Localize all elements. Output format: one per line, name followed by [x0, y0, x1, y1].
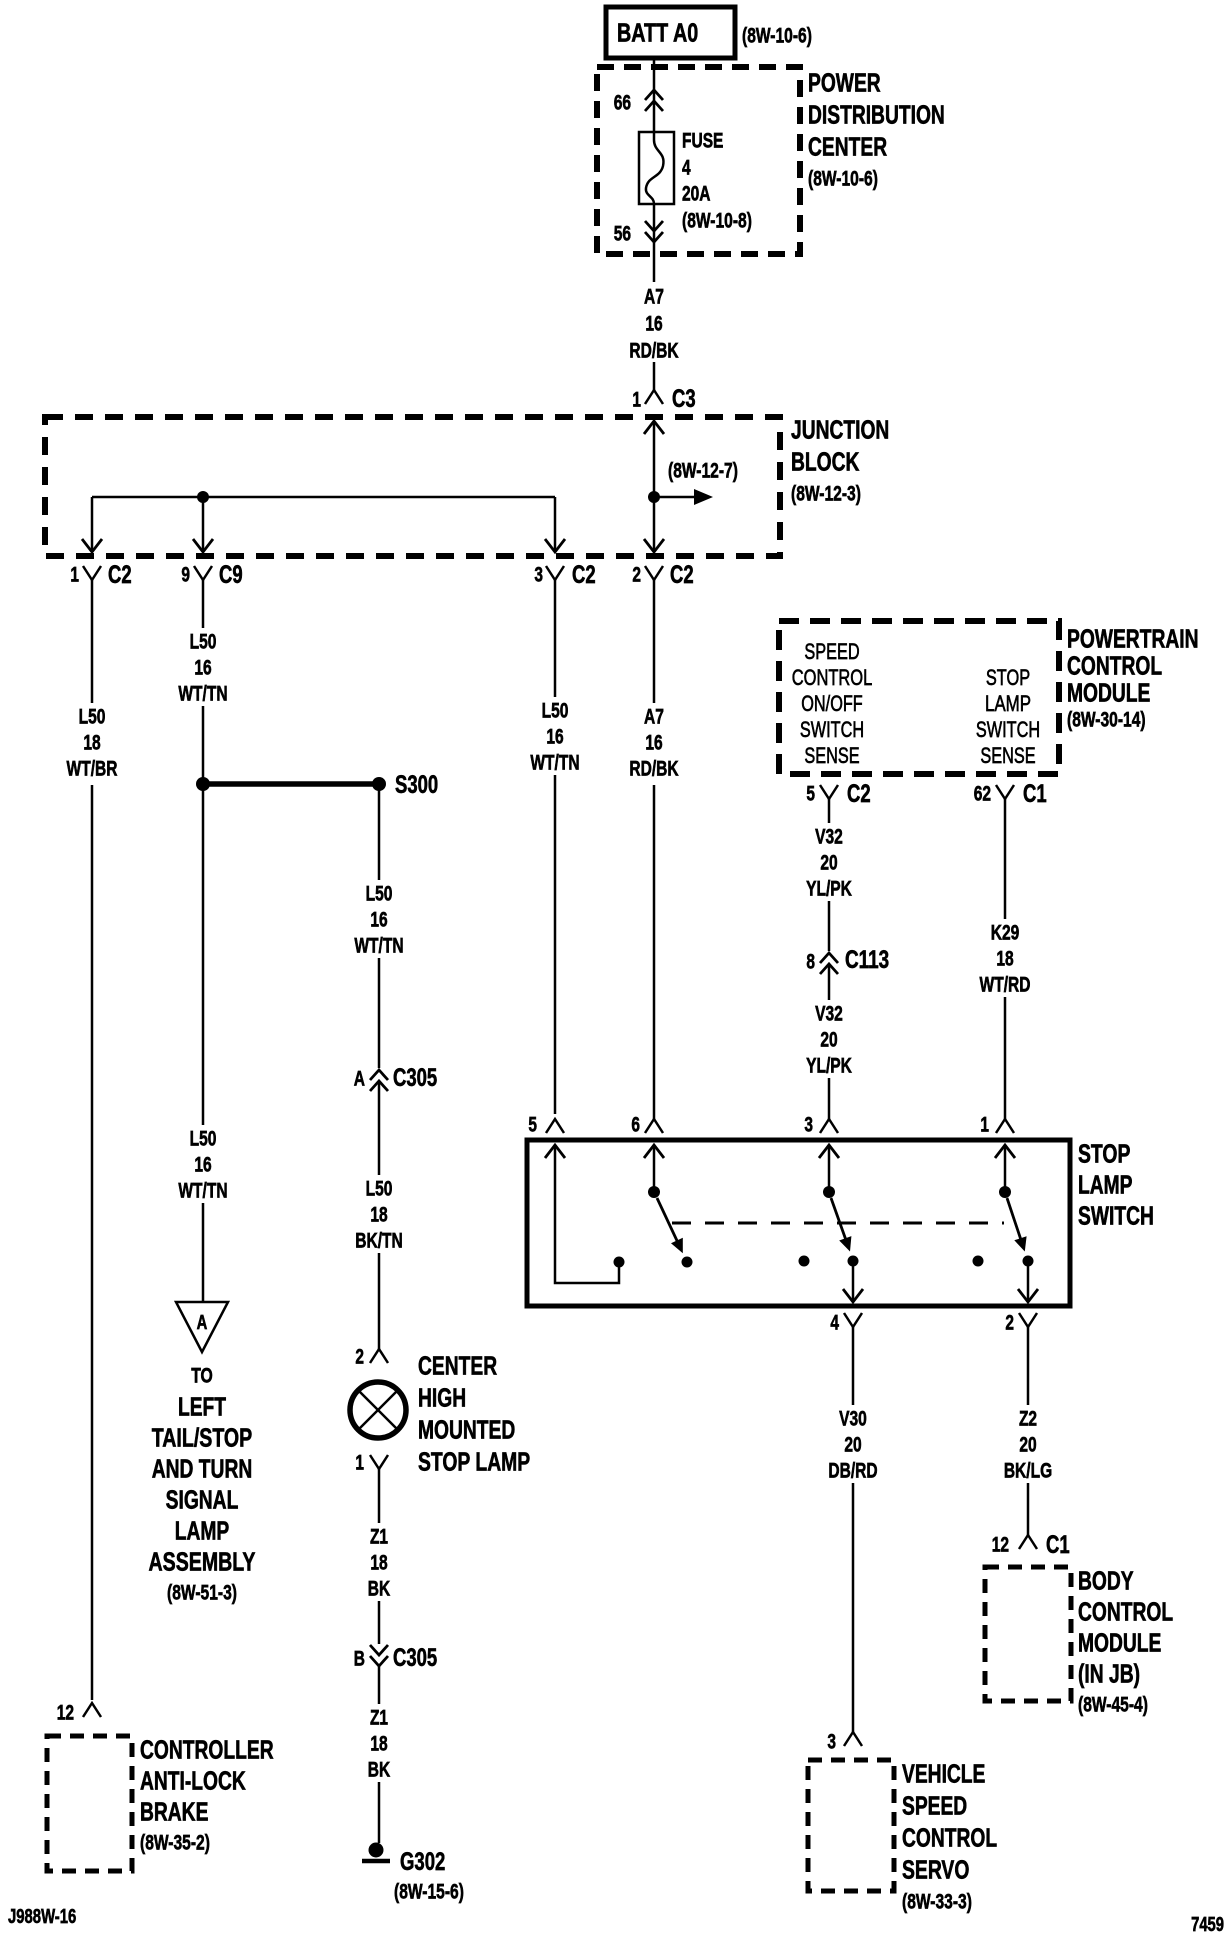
svg-text:(8W-35-2): (8W-35-2) [140, 1832, 210, 1855]
svg-text:7459: 7459 [1191, 1914, 1224, 1936]
junction block dashed box [45, 417, 780, 556]
wire segment below C305 [378, 1081, 381, 1175]
svg-text:POWER: POWER [808, 67, 881, 97]
switch connector pin 3 [820, 1119, 838, 1133]
switch pin 6 entry arrow [644, 1145, 664, 1158]
svg-text:A: A [354, 1068, 365, 1091]
svg-text:66: 66 [614, 92, 631, 115]
svg-text:C3: C3 [672, 385, 696, 413]
svg-text:S300: S300 [395, 771, 438, 799]
wire from BATT A0 into PDC [653, 58, 656, 140]
wire L50 upper segment left [91, 580, 94, 703]
wire Z2 segment to BCM [1027, 1483, 1030, 1535]
svg-text:C1: C1 [1046, 1531, 1070, 1559]
svg-text:16: 16 [645, 313, 662, 336]
wire L50 segment to stop lamp switch pin 5 [554, 775, 557, 1114]
svg-text:V32: V32 [815, 826, 843, 849]
connector C113 pin 8 [820, 953, 838, 963]
wire L50 from C9 to splice S300 and beyond [202, 706, 205, 1125]
svg-text:SERVO: SERVO [902, 1854, 969, 1884]
svg-text:18: 18 [996, 948, 1014, 971]
svg-text:3: 3 [534, 564, 543, 587]
PCM connector C1 pin 62 [996, 785, 1014, 799]
connector C9 pin 9 below junction block [194, 566, 212, 580]
wire segment to connector C305 B [378, 1601, 381, 1644]
A7 drop to connector C2 pin 2 with arrow [644, 539, 664, 552]
svg-text:(8W-10-8): (8W-10-8) [682, 210, 752, 233]
switch output wire to pin 4 with arrow [852, 1266, 855, 1300]
svg-text:C305: C305 [393, 1064, 437, 1092]
wire Z2 segment below switch [1027, 1327, 1030, 1405]
wire A7 upper segment below junction block [653, 580, 656, 703]
svg-text:LEFT: LEFT [178, 1391, 226, 1421]
svg-text:5: 5 [806, 783, 815, 806]
svg-text:(8W-33-3): (8W-33-3) [902, 1891, 972, 1914]
svg-text:L50: L50 [190, 1128, 217, 1151]
svg-text:20: 20 [820, 852, 837, 875]
svg-text:CONTROL: CONTROL [792, 665, 873, 690]
wire Z1 segment below lamp [378, 1469, 381, 1523]
switch blade pin 6 with arrow [657, 1198, 679, 1245]
svg-text:L50: L50 [542, 700, 569, 723]
wire segment to ground [378, 1782, 381, 1843]
controller anti-lock brake dashed box [47, 1736, 132, 1871]
switch contact node pin 6 throw [682, 1257, 693, 1268]
svg-text:CONTROL: CONTROL [902, 1822, 997, 1852]
switch output wire to pin 2 with arrow [1027, 1266, 1030, 1300]
svg-text:3: 3 [827, 1731, 836, 1754]
svg-text:12: 12 [57, 1702, 74, 1725]
svg-text:A7: A7 [644, 286, 664, 309]
svg-text:WT/BR: WT/BR [67, 758, 118, 781]
connector C2 pin 2 below junction block [645, 566, 663, 580]
svg-text:BK: BK [368, 1578, 390, 1601]
svg-text:20: 20 [820, 1029, 837, 1052]
svg-text:Z1: Z1 [370, 1526, 388, 1549]
switch gang dashed link [672, 1222, 1004, 1225]
svg-text:POWERTRAIN: POWERTRAIN [1067, 623, 1199, 653]
lamp connector pin 1 [370, 1455, 388, 1469]
svg-text:FUSE: FUSE [682, 130, 723, 153]
body control module dashed box [985, 1567, 1071, 1701]
powertrain control module dashed box [779, 621, 1059, 774]
svg-text:DISTRIBUTION: DISTRIBUTION [808, 99, 945, 129]
svg-text:56: 56 [614, 223, 631, 246]
servo connector pin 3 [844, 1732, 862, 1746]
svg-text:(8W-30-14): (8W-30-14) [1067, 709, 1146, 732]
svg-text:ANTI-LOCK: ANTI-LOCK [140, 1765, 246, 1795]
power source box BATT A0 [606, 7, 735, 58]
wire segment to connector C113 [828, 901, 831, 951]
svg-text:(8W-45-4): (8W-45-4) [1078, 1694, 1148, 1717]
svg-text:5: 5 [528, 1114, 537, 1137]
svg-text:(8W-12-7): (8W-12-7) [668, 460, 738, 483]
svg-text:Z1: Z1 [370, 1707, 388, 1730]
svg-text:C2: C2 [670, 561, 694, 589]
switch contact node pin 2 throw [1023, 1256, 1034, 1267]
svg-text:STOP: STOP [986, 665, 1030, 690]
svg-text:16: 16 [194, 1154, 211, 1177]
switch connector pin 1 [996, 1119, 1014, 1133]
svg-text:VEHICLE: VEHICLE [902, 1758, 985, 1788]
svg-text:16: 16 [194, 657, 211, 680]
svg-text:BRAKE: BRAKE [140, 1796, 208, 1826]
wire K29 segment from PCM [1004, 799, 1007, 919]
svg-text:SIGNAL: SIGNAL [166, 1484, 239, 1514]
svg-text:9: 9 [181, 564, 190, 587]
svg-text:B: B [354, 1648, 365, 1671]
svg-text:BLOCK: BLOCK [791, 446, 860, 476]
wire segment to connector C305 A [378, 958, 381, 1068]
switch contact node pin 4 throw [848, 1256, 859, 1267]
svg-text:(8W-10-6): (8W-10-6) [742, 25, 812, 48]
svg-text:AND TURN: AND TURN [152, 1453, 253, 1483]
fuse 4 20A [639, 132, 674, 204]
stop lamp switch box [527, 1140, 1070, 1306]
svg-text:16: 16 [546, 726, 563, 749]
svg-text:CENTER: CENTER [418, 1350, 497, 1380]
svg-text:(IN JB): (IN JB) [1078, 1658, 1140, 1688]
svg-text:18: 18 [83, 732, 101, 755]
svg-text:CONTROL: CONTROL [1078, 1596, 1173, 1626]
svg-text:ASSEMBLY: ASSEMBLY [149, 1546, 256, 1576]
ground G302 [369, 1843, 384, 1858]
switch pin 3 entry arrow [819, 1145, 839, 1158]
svg-text:SENSE: SENSE [980, 743, 1035, 768]
svg-text:WT/TN: WT/TN [530, 752, 579, 775]
svg-text:DB/RD: DB/RD [828, 1460, 877, 1483]
svg-text:2: 2 [1005, 1312, 1014, 1335]
svg-text:JUNCTION: JUNCTION [791, 414, 889, 444]
svg-text:4: 4 [830, 1312, 839, 1335]
connector C305 pin A [370, 1070, 388, 1080]
wire L50 18 WT/BR long segment to ABS controller [91, 785, 94, 1700]
svg-text:LAMP: LAMP [1078, 1169, 1133, 1199]
switch connector pin 2 [1019, 1313, 1037, 1327]
svg-text:SENSE: SENSE [804, 743, 859, 768]
svg-text:YL/PK: YL/PK [806, 878, 852, 901]
svg-text:BK: BK [368, 1759, 390, 1782]
svg-text:SPEED: SPEED [804, 639, 859, 664]
svg-text:BK/LG: BK/LG [1004, 1460, 1052, 1483]
lamp center high mounted stop lamp [350, 1382, 406, 1438]
svg-text:C305: C305 [393, 1644, 437, 1672]
junction node on A7 feed [648, 491, 660, 503]
svg-text:(8W-12-3): (8W-12-3) [791, 483, 861, 506]
svg-text:A7: A7 [644, 706, 664, 729]
connector C3 pin 1 [645, 390, 663, 404]
wire segment below C113 [828, 964, 831, 1000]
svg-text:C9: C9 [219, 561, 243, 589]
svg-text:LAMP: LAMP [985, 691, 1031, 716]
wire segment below C305 B [378, 1666, 381, 1704]
svg-text:L50: L50 [366, 883, 393, 906]
svg-text:L50: L50 [79, 706, 106, 729]
svg-text:WT/TN: WT/TN [178, 1180, 227, 1203]
bus drop to connector C9 pin 9 with arrow [202, 497, 205, 550]
junction node on bus at C9 drop [197, 491, 209, 503]
off-page reference triangle A [176, 1302, 228, 1352]
svg-text:STOP LAMP: STOP LAMP [418, 1446, 530, 1476]
svg-text:SWITCH: SWITCH [976, 717, 1040, 742]
svg-text:L50: L50 [190, 631, 217, 654]
svg-text:1: 1 [632, 389, 641, 412]
svg-text:Z2: Z2 [1019, 1408, 1037, 1431]
svg-text:3: 3 [804, 1114, 813, 1137]
svg-text:1: 1 [980, 1114, 989, 1137]
svg-text:20: 20 [1019, 1434, 1036, 1457]
bus drop to connector C2 pin 1 with arrow [91, 497, 94, 550]
switch pole node pin 6 [648, 1186, 660, 1198]
svg-text:LAMP: LAMP [175, 1515, 230, 1545]
svg-text:WT/TN: WT/TN [178, 683, 227, 706]
wire V30 segment below switch [852, 1327, 855, 1405]
switch pole node pin 1 [999, 1186, 1011, 1198]
switch blade pin 3 with arrow [831, 1198, 847, 1243]
PCM connector C2 pin 5 [820, 785, 838, 799]
svg-text:62: 62 [974, 783, 991, 806]
switch connector pin 4 [844, 1313, 862, 1327]
svg-text:K29: K29 [991, 922, 1020, 945]
wire segment to connector C3 [653, 362, 656, 390]
wire L50 upper segment from C2 pin 3 [554, 580, 557, 697]
svg-text:CONTROLLER: CONTROLLER [140, 1734, 274, 1764]
svg-text:WT/RD: WT/RD [980, 974, 1031, 997]
svg-text:C1: C1 [1023, 780, 1047, 808]
svg-text:BATT A0: BATT A0 [617, 17, 698, 47]
svg-text:RD/BK: RD/BK [629, 758, 678, 781]
BCM connector C1 pin 12 [1019, 1535, 1037, 1549]
svg-text:STOP: STOP [1078, 1138, 1130, 1168]
switch common contact node left [614, 1257, 625, 1268]
vehicle speed control servo dashed box [808, 1760, 894, 1891]
wire A7 segment to switch pin 6 [653, 785, 656, 1119]
svg-text:C2: C2 [108, 561, 132, 589]
connector C2 pin 3 below junction block [546, 566, 564, 580]
switch pin 1 entry arrow [995, 1145, 1015, 1158]
svg-text:BODY: BODY [1078, 1565, 1134, 1595]
svg-text:V30: V30 [839, 1408, 867, 1431]
switch pole node pin 3 [823, 1186, 835, 1198]
svg-text:8: 8 [806, 951, 815, 974]
wire segment to lamp pin 2 [378, 1253, 381, 1349]
svg-text:12: 12 [992, 1534, 1009, 1557]
svg-text:2: 2 [355, 1346, 364, 1369]
wire L50 from C9 upper segment [202, 580, 205, 628]
wire A7 segment below PDC [653, 246, 656, 282]
svg-text:18: 18 [370, 1733, 388, 1756]
svg-text:MODULE: MODULE [1067, 677, 1150, 707]
svg-text:C2: C2 [572, 561, 596, 589]
wire from S300 down segment [378, 784, 381, 880]
svg-text:G302: G302 [400, 1848, 445, 1876]
connector C305 pin B [370, 1656, 388, 1666]
svg-text:ON/OFF: ON/OFF [801, 691, 863, 716]
svg-text:TAIL/STOP: TAIL/STOP [152, 1422, 253, 1452]
connector pin 12 to ABS controller [83, 1703, 101, 1717]
svg-text:RD/BK: RD/BK [629, 340, 678, 363]
lamp connector pin 2 [370, 1349, 388, 1363]
splice S300 [196, 777, 210, 791]
svg-text:CONTROL: CONTROL [1067, 650, 1162, 680]
svg-text:TO: TO [191, 1365, 213, 1388]
wire segment to off-page triangle A [202, 1203, 205, 1302]
svg-text:SPEED: SPEED [902, 1790, 967, 1820]
svg-text:YL/PK: YL/PK [806, 1055, 852, 1078]
svg-text:6: 6 [631, 1114, 640, 1137]
svg-text:J988W-16: J988W-16 [8, 1906, 76, 1928]
svg-text:2: 2 [632, 564, 641, 587]
svg-text:20A: 20A [682, 183, 711, 206]
svg-text:C2: C2 [847, 780, 871, 808]
svg-text:1: 1 [70, 564, 79, 587]
svg-text:18: 18 [370, 1204, 388, 1227]
wire A7 inside junction block with entry arrow [644, 421, 664, 434]
svg-text:(8W-15-6): (8W-15-6) [394, 1881, 464, 1904]
wire segment to stop lamp switch pin 3 [828, 1078, 831, 1119]
branch arrow to (8W-12-7) [654, 496, 697, 499]
svg-text:16: 16 [645, 732, 662, 755]
switch pin 5 entry arrow and internal wire [545, 1145, 565, 1158]
svg-text:SWITCH: SWITCH [1078, 1200, 1154, 1230]
svg-text:L50: L50 [366, 1178, 393, 1201]
switch open contact node center [799, 1256, 810, 1267]
switch open contact node right [973, 1256, 984, 1267]
svg-text:18: 18 [370, 1552, 388, 1575]
svg-text:(8W-10-6): (8W-10-6) [808, 168, 878, 191]
svg-text:WT/TN: WT/TN [354, 935, 403, 958]
connector C2 pin 1 below junction block [83, 566, 101, 580]
svg-text:MODULE: MODULE [1078, 1627, 1161, 1657]
svg-text:SWITCH: SWITCH [800, 717, 864, 742]
wire segment to stop lamp switch pin 1 [1004, 997, 1007, 1119]
junction block bus wire [92, 496, 555, 499]
switch blade pin 1 with arrow [1007, 1198, 1022, 1243]
svg-text:4: 4 [682, 157, 691, 180]
svg-text:BK/TN: BK/TN [355, 1230, 403, 1253]
svg-text:V32: V32 [815, 1003, 843, 1026]
svg-text:CENTER: CENTER [808, 131, 887, 161]
svg-text:C113: C113 [845, 946, 889, 974]
bus drop to connector C2 pin 3 with arrow [554, 497, 557, 550]
svg-text:MOUNTED: MOUNTED [418, 1414, 515, 1444]
wire V30 long segment to servo [852, 1483, 855, 1732]
svg-text:1: 1 [355, 1452, 364, 1475]
svg-text:HIGH: HIGH [418, 1382, 466, 1412]
power distribution center dashed box [597, 67, 800, 254]
wire V32 segment from PCM [828, 799, 831, 823]
svg-text:16: 16 [370, 909, 387, 932]
svg-text:A: A [197, 1312, 208, 1334]
svg-text:20: 20 [844, 1434, 861, 1457]
svg-text:(8W-51-3): (8W-51-3) [167, 1582, 237, 1605]
